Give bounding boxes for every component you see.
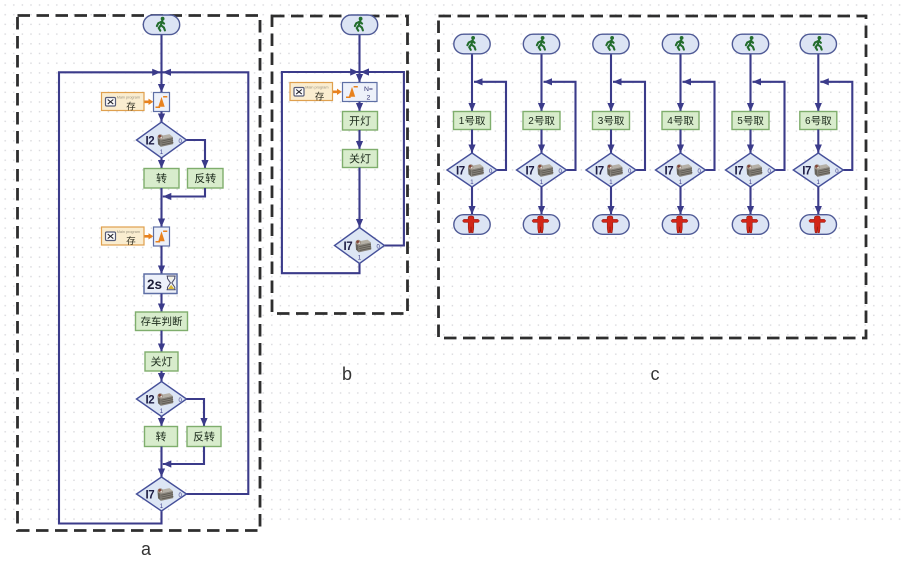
section c dashed frame [439,16,867,338]
subprogram box 存 #2 [102,227,145,245]
svg-text:I7: I7 [146,489,155,501]
wire I2#2.1 down to 转 #2 [160,417,162,427]
start symbol c1 [454,34,490,54]
wire I7.1 to end c4 [679,187,681,215]
svg-text:I2: I2 [146,394,155,406]
decision I7 c3 [586,153,636,187]
process 反转 #1 [188,169,224,189]
start symbol c2 [523,34,559,54]
wire I2#2.0 right to 反转 #2 [187,399,205,427]
svg-text:b: b [342,364,352,384]
column 6: loop wire (I7 exit 0 back up) [820,82,852,170]
decision I7 c6 [793,153,843,187]
process 6号取 [800,112,837,130]
svg-text:6: 6 [805,116,811,127]
decision I7 c2 [517,153,567,187]
decision I2 #2 [137,382,187,417]
merge wires below 转/反转 [160,188,162,227]
process 1号取 [454,112,491,130]
column 1: loop wire (I7 exit 0 back up) [474,82,506,170]
arrowhead into trigger 1 [158,84,165,93]
svg-text:3: 3 [598,116,604,127]
column 3: wire start down to box [610,54,612,112]
svg-text:I7: I7 [456,165,465,177]
decision I2 #1 [137,122,187,158]
wire to 关灯 b [358,130,360,150]
process 转 #2 [145,427,178,447]
end symbol c4 [662,215,698,235]
process 转 #1 [144,169,179,189]
junction arrowheads b [350,68,359,75]
merge wires below 转/反转 #2 [160,447,162,478]
wire I7.1 to end c3 [610,187,612,215]
wire 2s to 存车判断 [160,294,162,313]
trigger element #2 [154,227,170,246]
svg-text:Main program: Main program [305,85,328,89]
svg-text:N=: N= [364,86,373,93]
svg-text:Main program: Main program [117,230,140,234]
column 5: wire start down to box [749,54,751,112]
svg-text:Main program: Main program [117,95,140,99]
wire I7.1 to end c1 [471,187,473,215]
start symbol c5 [732,34,768,54]
counter loop element N=2 [343,83,378,102]
column 2: loop wire (I7 exit 0 back up) [544,82,576,170]
svg-text:I7: I7 [802,165,811,177]
svg-text:2s: 2s [147,277,162,292]
process 关灯 b [343,150,378,168]
trigger element #1 [154,93,170,112]
svg-text:5: 5 [737,116,743,127]
wait element 2s [144,274,177,294]
svg-text:I7: I7 [526,165,535,177]
decision I7 c1 [447,153,497,187]
process 反转 #2 [187,427,221,447]
wire trigger1 to I2 [160,112,162,123]
end symbol c2 [523,215,559,235]
svg-text:I7: I7 [595,165,604,177]
column 4: loop wire (I7 exit 0 back up) [683,82,715,170]
column 5: loop wire (I7 exit 0 back up) [753,82,785,170]
start symbol a [143,15,179,35]
svg-text:a: a [141,539,152,559]
process 关灯 a [145,352,178,371]
subprogram box 存 #1 [102,93,145,111]
subprogram box 存 b [290,83,333,101]
end symbol c5 [732,215,768,235]
start symbol c3 [593,34,629,54]
process 存车判断 [136,312,188,331]
decision I7 c4 [656,153,706,187]
end symbol c1 [454,215,490,235]
wire box to I7 c2 [540,130,542,154]
wire: loop left branch b [282,72,360,273]
svg-text:I7: I7 [735,165,744,177]
wire box to I7 c5 [749,130,751,154]
svg-text:I7: I7 [344,241,353,253]
process 开灯 [343,112,378,131]
wire box to I7 c1 [471,130,473,154]
wire to I7 b [358,168,360,228]
wire: loop right branch b [360,72,404,246]
wire: loop left branch a (I7 exit 1 back to top) [59,72,162,523]
start symbol c6 [800,34,836,54]
column 2: wire start down to box [540,54,542,112]
column 3: loop wire (I7 exit 0 back up) [613,82,645,170]
section b dashed frame [272,16,408,314]
wire trigger2 to 2s [160,246,162,274]
wire: start to merge junction a [160,35,162,93]
wire I7.1 to end c2 [540,187,542,215]
svg-text:I7: I7 [665,165,674,177]
wire I7.1 to end c5 [749,187,751,215]
end symbol c6 [800,215,836,235]
wire I2.0 right to 反转 [187,140,206,169]
process 4号取 [662,112,699,130]
decision I7 b [335,228,385,264]
wire I2.1 down to 转 [160,158,162,169]
start symbol b [341,15,377,35]
process 3号取 [593,112,630,130]
wire I7.1 to end c6 [817,187,819,215]
column 4: wire start down to box [679,54,681,112]
wire to I2 #2 [160,371,162,382]
svg-text:I2: I2 [146,135,155,147]
start symbol c4 [662,34,698,54]
wire box to I7 c4 [679,130,681,154]
wire: start to counter b [358,35,360,83]
wire to 开灯 [358,102,360,112]
decision I7 a [137,477,187,511]
column 1: wire start down to box [471,54,473,112]
column 6: wire start down to box [817,54,819,112]
decision I7 c5 [726,153,776,187]
svg-text:c: c [651,364,660,384]
process 2号取 [523,112,560,130]
wire box to I7 c3 [610,130,612,154]
process 5号取 [732,112,769,130]
svg-text:1: 1 [459,116,465,127]
svg-text:2: 2 [367,95,371,102]
junction arrowheads a [152,69,161,76]
svg-text:2: 2 [528,116,534,127]
wire box to I7 c6 [817,130,819,154]
section a dashed frame [18,16,261,531]
end symbol c3 [593,215,629,235]
wire: loop right branch a (I7 exit 0 back to top) [162,72,249,494]
svg-text:4: 4 [667,116,673,127]
wire to 关灯 a [160,331,162,353]
